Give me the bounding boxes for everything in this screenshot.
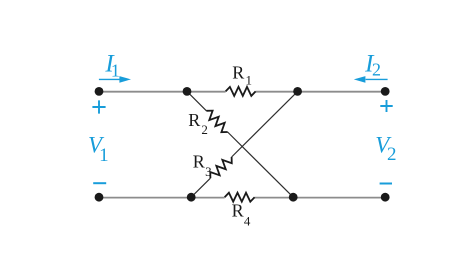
resistor R3 [207, 154, 235, 182]
svg-text:I2: I2 [364, 51, 381, 80]
junction node A (top-left) [183, 87, 192, 96]
svg-text:I1: I1 [104, 51, 120, 81]
terminal dot bottom-left [95, 193, 104, 202]
resistor R2 [203, 108, 231, 136]
wire top-right segment (R1 right lead to terminal) [256, 91, 386, 93]
wire diagonal lead from R2 to node D (crosses R3 branch) [228, 132, 294, 197]
wire diagonal lead from node A to R2 [187, 91, 206, 110]
junction node C (bottom-left) [187, 193, 196, 202]
svg-text:V1: V1 [88, 133, 109, 166]
terminal dot bottom-right [381, 193, 390, 202]
junction node D (bottom-right) [289, 193, 298, 202]
current arrow I1 (pointing right) [99, 78, 120, 80]
terminal dot top-right [381, 87, 390, 96]
resistor R1 [226, 87, 256, 96]
wire diagonal lead from R3 to node C [191, 178, 210, 197]
junction node B (top-right) [293, 87, 302, 96]
wire bottom-right segment (R4 right lead to terminal) [255, 197, 386, 199]
svg-text:R3: R3 [193, 152, 212, 180]
terminal dot top-left [95, 87, 104, 96]
svg-text:R2: R2 [188, 110, 208, 137]
svg-text:R1: R1 [232, 63, 252, 88]
minus sign left [93, 182, 106, 184]
wire top-left segment (terminal to R1 left lead) [99, 91, 226, 93]
svg-text:V2: V2 [375, 133, 396, 165]
wire bottom-left segment (terminal to R4 left lead) [99, 197, 225, 199]
plus sign left [92, 100, 105, 113]
svg-text:R4: R4 [232, 201, 251, 229]
wire diagonal lead from node B to R3 (crosses R2 branch) [232, 91, 298, 157]
minus sign right [380, 183, 392, 185]
current arrow I2 (pointing left) [366, 78, 388, 80]
resistor R4 [225, 193, 255, 202]
plus sign right [380, 100, 392, 112]
